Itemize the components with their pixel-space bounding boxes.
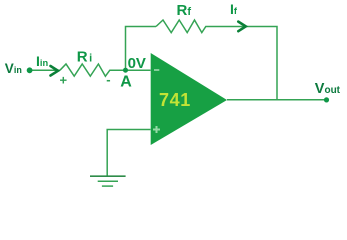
svg-text:Rf: Rf xyxy=(177,2,192,19)
svg-text:0V: 0V xyxy=(128,55,146,72)
svg-text:Vout: Vout xyxy=(315,81,341,97)
svg-text:A: A xyxy=(120,74,132,91)
svg-text:If: If xyxy=(230,1,238,17)
svg-text:Vin: Vin xyxy=(5,61,22,76)
svg-text:+: + xyxy=(60,72,68,87)
svg-text:Iin: Iin xyxy=(36,53,48,69)
svg-text:Ri: Ri xyxy=(77,49,92,66)
svg-text:-: - xyxy=(106,72,110,87)
svg-text:741: 741 xyxy=(159,90,191,110)
